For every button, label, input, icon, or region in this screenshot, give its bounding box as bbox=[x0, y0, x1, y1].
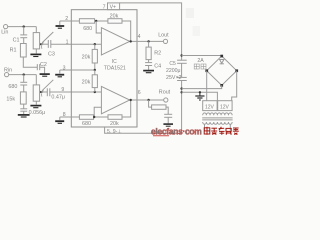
terminal Lout bbox=[163, 39, 167, 43]
svg-text:15k: 15k bbox=[6, 96, 15, 102]
node Rin junction bbox=[23, 73, 25, 75]
wire bridge plus bbox=[182, 55, 222, 57]
capacitor 0.056u bbox=[20, 104, 27, 114]
wire output 2 bbox=[130, 99, 164, 101]
ground pin 8 bbox=[55, 121, 64, 123]
svg-text:680: 680 bbox=[83, 26, 92, 32]
ground pin 2 bbox=[56, 26, 65, 28]
ground C4 bbox=[143, 71, 154, 73]
potentiometer RP2 bbox=[33, 75, 39, 105]
svg-text:C3: C3 bbox=[48, 52, 55, 58]
ground RP2 bbox=[30, 106, 41, 108]
wire pin 8 bbox=[60, 117, 80, 120]
node bridge right bbox=[235, 69, 238, 72]
svg-text:9: 9 bbox=[61, 87, 64, 93]
svg-text:C4: C4 bbox=[154, 63, 161, 69]
ground RP1 bbox=[30, 54, 41, 56]
svg-text:20k: 20k bbox=[110, 14, 119, 20]
resistor 15k bbox=[20, 92, 26, 104]
svg-text:2A: 2A bbox=[197, 58, 204, 64]
wiper arrow RP2 bbox=[40, 80, 53, 97]
wire pin 9 bbox=[50, 91, 102, 93]
node rail minus bbox=[180, 87, 182, 89]
svg-text:R2: R2 bbox=[154, 51, 161, 57]
resistor zobel 2 bbox=[149, 100, 169, 114]
terminal Lin bbox=[4, 25, 8, 29]
capacitor 0.47u bbox=[47, 88, 50, 96]
wire feedback to output 1 bbox=[122, 21, 131, 41]
wire inverting input 1 bbox=[96, 21, 101, 33]
svg-text:4: 4 bbox=[138, 34, 141, 40]
resistor 20k top bbox=[108, 19, 122, 24]
svg-text:8: 8 bbox=[63, 112, 66, 118]
wire wiper to C3 bbox=[41, 43, 48, 45]
capacitor zobel 2 bbox=[164, 114, 172, 123]
wire pin 2 bbox=[60, 21, 80, 25]
svg-text:Lin: Lin bbox=[1, 30, 8, 36]
svg-text:20k: 20k bbox=[110, 121, 119, 127]
terminal Rout bbox=[164, 98, 168, 102]
node rail plus bbox=[180, 54, 182, 56]
node feedback bottom bbox=[93, 116, 95, 118]
resistor R1 bbox=[20, 44, 26, 58]
svg-text:5. 9-⊥: 5. 9-⊥ bbox=[107, 129, 122, 135]
svg-text:3: 3 bbox=[63, 65, 66, 71]
capacitor C5b bbox=[177, 77, 187, 80]
capacitor C5a bbox=[177, 60, 187, 63]
svg-text:IC: IC bbox=[112, 59, 117, 65]
ground pin 3 bbox=[55, 75, 64, 77]
resistor 20k bias upper bbox=[92, 44, 97, 70]
op-amp U1b bbox=[101, 86, 129, 113]
node pin 3 bbox=[94, 69, 96, 71]
ground 0.056u bbox=[18, 115, 30, 117]
svg-text:Lout: Lout bbox=[158, 32, 169, 38]
svg-text:680: 680 bbox=[8, 84, 17, 90]
capacitor 680p bbox=[20, 75, 27, 92]
svg-text:C1: C1 bbox=[13, 37, 20, 43]
svg-text:25V×2: 25V×2 bbox=[166, 75, 182, 81]
op-amp U1a bbox=[101, 28, 129, 55]
node feedback top bbox=[95, 20, 97, 22]
wire pin 1 bbox=[51, 43, 102, 45]
node Lin junction bbox=[23, 25, 25, 27]
node RP2 wiper bbox=[40, 91, 42, 93]
resistor R2 bbox=[146, 41, 151, 62]
svg-text:C2: C2 bbox=[40, 62, 47, 68]
IC box TDA1521 bbox=[71, 10, 137, 127]
artifact patch 2 bbox=[193, 26, 201, 36]
wire V+ rail top bbox=[120, 3, 182, 60]
ground C2 bbox=[40, 74, 50, 76]
wire pin 5 to ground rail bbox=[105, 127, 182, 133]
node ct ground bbox=[199, 91, 201, 93]
diode bridge bbox=[220, 60, 224, 64]
svg-text:0.056μ: 0.056μ bbox=[29, 110, 46, 116]
svg-text:R1: R1 bbox=[10, 48, 17, 54]
node output 1 bbox=[130, 40, 132, 42]
V+ box bbox=[108, 3, 120, 10]
wire bridge minus bbox=[182, 85, 222, 88]
transformer primary bbox=[203, 122, 232, 124]
svg-text:6: 6 bbox=[138, 90, 141, 96]
ground earth ct bbox=[195, 92, 204, 100]
node bridge left bbox=[205, 69, 208, 72]
wire R1 to C2 bbox=[23, 57, 37, 67]
transformer secondary bbox=[203, 113, 232, 115]
artifact patch 1 bbox=[186, 8, 194, 18]
label box 12V right bbox=[218, 101, 232, 111]
wire bridge ac left bbox=[206, 71, 208, 101]
node bridge bottom bbox=[220, 84, 223, 87]
bridge rectifier bbox=[207, 56, 237, 85]
capacitor C2 bbox=[37, 64, 44, 73]
svg-text:Rout: Rout bbox=[159, 89, 171, 95]
label box 12V left bbox=[203, 101, 217, 111]
wire feedback to output 2 bbox=[122, 100, 131, 117]
node zobel 1 bbox=[147, 40, 149, 42]
svg-text:1: 1 bbox=[66, 39, 69, 45]
terminal Rin bbox=[5, 73, 9, 77]
watermark underline bbox=[153, 135, 169, 137]
svg-text:7: 7 bbox=[103, 4, 106, 10]
svg-text:elecfans·com: elecfans·com bbox=[151, 126, 202, 137]
svg-text:V+: V+ bbox=[110, 5, 117, 11]
watermark chinese bbox=[204, 127, 239, 135]
wire inverting input 2 bbox=[94, 107, 101, 117]
wire rail mid bbox=[181, 63, 183, 77]
node RP1 wiper bbox=[40, 43, 42, 45]
node pin 1 bbox=[94, 43, 96, 45]
capacitor C3 bbox=[48, 40, 51, 48]
svg-text:2: 2 bbox=[65, 16, 68, 22]
svg-text:2200μ: 2200μ bbox=[166, 68, 181, 74]
node rail ct bbox=[180, 91, 182, 93]
capacitor C1 bbox=[20, 27, 27, 44]
wiper arrow RP1 bbox=[40, 32, 53, 49]
node bridge top bbox=[220, 55, 223, 58]
svg-text:12V: 12V bbox=[220, 104, 230, 110]
wire primary right bbox=[229, 124, 231, 130]
resistor 20k bottom bbox=[108, 115, 122, 120]
label quanqiao bbox=[194, 64, 206, 69]
wire center tap bbox=[182, 92, 218, 100]
svg-text:C5: C5 bbox=[169, 61, 176, 67]
svg-text:12V: 12V bbox=[205, 104, 215, 110]
svg-text:0.47μ: 0.47μ bbox=[51, 95, 65, 101]
resistor 20k bias lower bbox=[92, 70, 97, 92]
svg-text:20k: 20k bbox=[82, 80, 91, 86]
potentiometer RP1 bbox=[33, 27, 39, 54]
svg-text:20k: 20k bbox=[82, 55, 91, 61]
svg-text:Rin: Rin bbox=[4, 67, 12, 73]
wire bridge ac right bbox=[232, 71, 237, 101]
resistor 680 top bbox=[79, 19, 94, 24]
wire Rin input bbox=[9, 74, 37, 76]
node pin 9 bbox=[94, 91, 96, 93]
svg-text:680: 680 bbox=[82, 121, 91, 127]
ground zobel 2 bbox=[163, 124, 173, 126]
wire output 1 bbox=[130, 40, 164, 42]
svg-text:TDA1521: TDA1521 bbox=[104, 65, 126, 71]
wire primary left bbox=[204, 124, 206, 130]
capacitor C4 bbox=[145, 63, 152, 70]
wire 680 to 20k bottom bbox=[94, 116, 109, 118]
transformer core bbox=[202, 118, 232, 120]
wire pin 3 bbox=[60, 70, 95, 74]
wire 680 to 20k bbox=[95, 20, 108, 22]
resistor 680 bottom bbox=[79, 115, 93, 120]
wire rail bottom bbox=[181, 81, 183, 134]
node zobel 2 bbox=[147, 99, 149, 101]
wire wiper to 0.47u bbox=[41, 91, 47, 93]
wire Lin input bbox=[8, 26, 37, 28]
node output 2 bbox=[130, 99, 132, 101]
